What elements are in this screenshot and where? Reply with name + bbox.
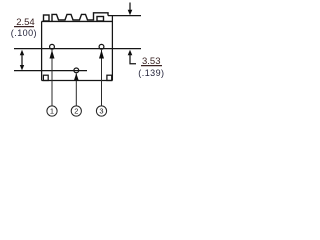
svg-text:(.139): (.139) — [138, 68, 164, 78]
pin 1 lead wire — [51, 50, 53, 106]
body outline left edge — [41, 21, 43, 80]
3.53 dimension top shaft — [129, 3, 131, 11]
pin 1 circle — [50, 44, 55, 49]
body bottom base line — [42, 80, 113, 82]
top profile left small square — [44, 15, 50, 21]
pin 2 lead wire — [75, 74, 77, 106]
balloon pin 2 — [71, 106, 81, 116]
pin 3 lead wire — [101, 50, 103, 106]
3.53 dimension bottom arrowhead — [128, 50, 133, 56]
body outline right edge — [111, 16, 113, 81]
pin 3 arrowhead — [99, 50, 104, 59]
upper pin row dimension line y49 — [14, 48, 141, 50]
3.53 dimension top arrowhead — [128, 10, 133, 15]
svg-text:1: 1 — [50, 107, 54, 116]
top profile inner small square — [97, 17, 104, 22]
top right edge line to extension — [108, 15, 141, 17]
balloon pin 1 — [47, 106, 57, 116]
body top baseline — [42, 20, 113, 22]
balloon pin 3 — [96, 106, 106, 116]
top profile crenellated line — [52, 13, 108, 22]
svg-text:3: 3 — [99, 107, 103, 116]
2.54 dimension lower arrowhead — [20, 65, 24, 70]
right standoff square — [107, 75, 112, 80]
svg-text:(.100): (.100) — [11, 28, 37, 38]
lower pin row dimension line y71 — [14, 70, 87, 72]
pin 1 arrowhead — [50, 50, 55, 59]
svg-text:2: 2 — [74, 107, 78, 116]
pin 2 arrowhead — [74, 73, 79, 81]
left standoff square — [43, 75, 48, 80]
pin 2 circle — [74, 68, 79, 73]
pin 3 circle — [99, 44, 104, 49]
dimension underline 2.54 — [14, 26, 34, 28]
3.53 dimension bottom shaft with foot — [130, 54, 136, 64]
2.54 dimension shaft — [21, 54, 23, 66]
2.54 dimension upper arrowhead — [20, 50, 24, 56]
dimension underline 3.53 — [141, 65, 162, 67]
